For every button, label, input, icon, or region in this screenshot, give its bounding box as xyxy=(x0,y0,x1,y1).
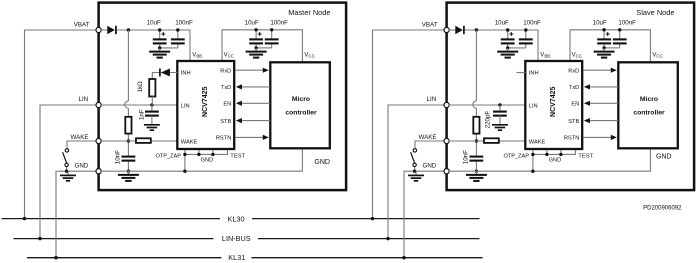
svg-text:Slave Node: Slave Node xyxy=(636,8,674,17)
svg-text:1nF: 1nF xyxy=(138,109,145,120)
svg-text:Master Node: Master Node xyxy=(288,8,330,17)
svg-text:KL31: KL31 xyxy=(228,253,245,262)
svg-text:GND: GND xyxy=(314,159,330,166)
svg-text:220pF: 220pF xyxy=(485,111,492,129)
svg-text:GND: GND xyxy=(656,153,672,160)
svg-text:KL30: KL30 xyxy=(227,215,244,224)
svg-text:1kΩ: 1kΩ xyxy=(137,81,144,93)
svg-text:PD200906092: PD200906092 xyxy=(643,206,682,212)
svg-text:LIN-BUS: LIN-BUS xyxy=(222,234,251,243)
